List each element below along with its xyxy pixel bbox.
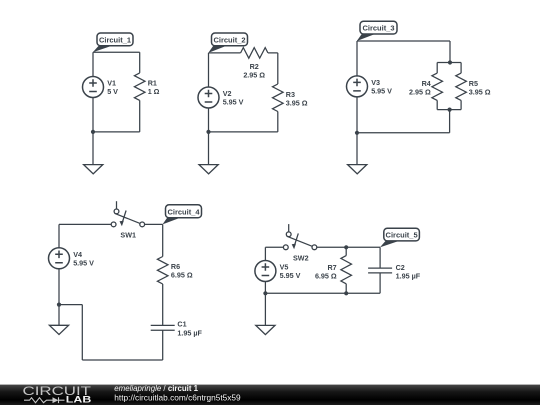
svg-text:C1: C1: [177, 319, 186, 328]
svg-text:5.95 V: 5.95 V: [223, 98, 244, 107]
svg-text:5.95 V: 5.95 V: [371, 87, 392, 96]
svg-text:1.95 µF: 1.95 µF: [177, 329, 202, 338]
svg-text:1 Ω: 1 Ω: [148, 87, 160, 96]
svg-text:6.95 Ω: 6.95 Ω: [171, 271, 193, 280]
svg-text:Circuit_1: Circuit_1: [99, 36, 131, 45]
svg-text:LAB: LAB: [66, 395, 92, 405]
svg-text:http://circuitlab.com/c6ntrgn5: http://circuitlab.com/c6ntrgn5t5x59: [114, 393, 241, 403]
svg-text:2.95 Ω: 2.95 Ω: [243, 70, 265, 79]
svg-text:Circuit_2: Circuit_2: [213, 36, 245, 45]
svg-text:emeliapringle / circuit 1: emeliapringle / circuit 1: [114, 384, 198, 393]
svg-text:1.95 µF: 1.95 µF: [396, 271, 421, 280]
svg-text:5.95 V: 5.95 V: [280, 271, 301, 280]
svg-text:Circuit_5: Circuit_5: [386, 231, 418, 240]
svg-text:5.95 V: 5.95 V: [73, 259, 94, 268]
svg-text:SW2: SW2: [293, 253, 309, 262]
svg-text:3.95 Ω: 3.95 Ω: [469, 87, 491, 96]
svg-text:2.95 Ω: 2.95 Ω: [409, 87, 431, 96]
svg-text:Circuit_3: Circuit_3: [362, 24, 394, 33]
svg-text:5 V: 5 V: [107, 87, 118, 96]
svg-text:3.95 Ω: 3.95 Ω: [286, 98, 308, 107]
svg-text:Circuit_4: Circuit_4: [167, 208, 200, 217]
svg-text:6.95 Ω: 6.95 Ω: [315, 271, 337, 280]
svg-text:SW1: SW1: [120, 231, 136, 240]
